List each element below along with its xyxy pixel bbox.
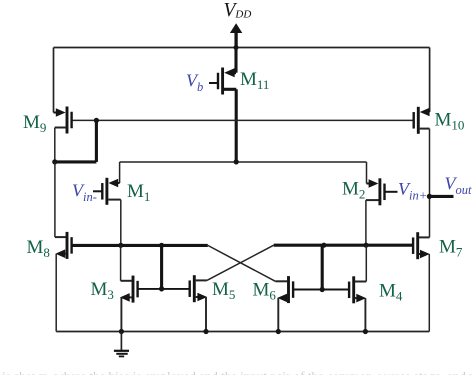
wire M7 source down [428, 254, 430, 332]
svg-text:M8: M8 [27, 237, 50, 260]
transistor M1 [93, 162, 121, 205]
wire M6-M4 gate link [293, 289, 349, 291]
transistor M4 [349, 276, 366, 303]
wire M10 drain / Vout rail [429, 129, 431, 238]
transistor M2 [366, 162, 398, 205]
wire M9 diode connection [52, 118, 99, 165]
wire gate line M9-M10 [71, 119, 414, 121]
svg-text:M2: M2 [342, 179, 365, 202]
svg-text:M6: M6 [253, 280, 277, 303]
svg-text:Vout: Vout [445, 174, 473, 198]
svg-text:M9: M9 [23, 112, 46, 135]
svg-text:is shown, where the bias is em: is shown, where the bias is employed and… [2, 369, 474, 375]
wire M8 drain up [54, 162, 56, 237]
wire M3 drain up to node A [120, 245, 122, 280]
svg-text:M4: M4 [379, 281, 403, 304]
wire M9 drain down [54, 128, 56, 162]
wire node A dropper [159, 245, 164, 291]
ground [114, 332, 129, 357]
transistor M7 [413, 232, 430, 259]
svg-text:Vb: Vb [186, 71, 203, 95]
svg-text:M7: M7 [439, 237, 463, 260]
svg-text:M11: M11 [240, 69, 269, 92]
wire M11 drain to tail node [235, 89, 238, 162]
wire cross-couple right-to-M5 [207, 245, 274, 280]
svg-text:Vin-: Vin- [72, 181, 97, 205]
transistor M11 [209, 48, 236, 95]
power VDD arrow [230, 23, 242, 50]
wire right gate rail node B [274, 243, 414, 248]
transistor M6 [275, 276, 293, 303]
wire tail rail [120, 161, 367, 163]
wire left gate rail node A [71, 243, 207, 248]
wire M8 source down [55, 254, 57, 332]
svg-text:M1: M1 [127, 181, 150, 204]
transistor M10 [414, 48, 430, 134]
wire bottom rail [56, 329, 429, 334]
wire M4 drain up to node B [365, 245, 367, 281]
wire M2 drain down to node B [365, 200, 367, 245]
transistor M5 [190, 275, 208, 302]
node Vout tap [427, 194, 454, 199]
node tail junction [234, 159, 239, 164]
svg-text:Vin+: Vin+ [398, 179, 427, 203]
wire M5 source down [205, 297, 207, 332]
wire M6 source down [277, 298, 279, 332]
wire M4 source down [364, 298, 366, 331]
wire M3-M5 gate link [137, 288, 190, 290]
svg-text:VDD: VDD [224, 0, 252, 21]
svg-text:M3: M3 [91, 279, 114, 302]
wire node B dropper [320, 245, 325, 292]
svg-text:M5: M5 [212, 279, 235, 302]
wire top VDD rail [54, 47, 430, 49]
transistor M9 [54, 48, 72, 134]
wire M3 source down [120, 297, 122, 331]
transistor M8 [55, 232, 72, 259]
svg-text:M10: M10 [435, 110, 465, 133]
transistor M3 [120, 276, 138, 303]
wire cross-couple left-to-M6 [208, 245, 276, 281]
wire M1 drain down to node A [120, 200, 122, 246]
